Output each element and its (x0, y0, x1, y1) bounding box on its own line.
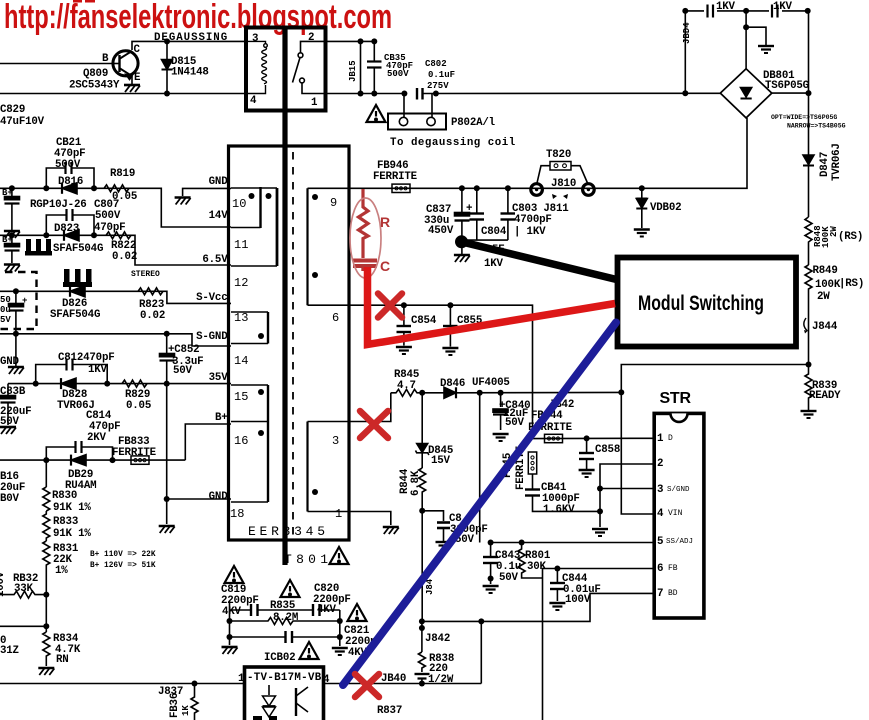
capacitor 1KV (left) (704, 1, 736, 18)
capacitor C840 (493, 393, 530, 430)
svg-text:0u: 0u (0, 305, 11, 315)
ground (38, 668, 54, 675)
svg-text:8.2M: 8.2M (273, 612, 298, 624)
ground (396, 347, 412, 354)
diode VDB02 (636, 185, 681, 228)
jumper J842 (419, 621, 450, 652)
node junction (477, 390, 483, 396)
resistor R835 (230, 600, 340, 625)
node bridge top feed (743, 8, 749, 14)
capacitor C855 (443, 305, 482, 346)
resistor R839 (805, 365, 841, 411)
svg-text:1KV: 1KV (716, 1, 736, 13)
svg-text:11: 11 (234, 238, 248, 252)
jumper JB04 (682, 11, 692, 96)
node junction (164, 496, 170, 502)
svg-text:C802: C802 (425, 59, 447, 69)
svg-text:OPT=WIDE=>TS6P05G: OPT=WIDE=>TS6P05G (771, 114, 837, 121)
node junction (312, 272, 318, 278)
svg-text:R: R (380, 214, 390, 230)
resistor R829 (122, 380, 151, 412)
svg-text:http://fanselektronic.blogspot: http://fanselektronic.blogspot.com (4, 0, 392, 36)
node junction (401, 302, 407, 308)
node junction (9, 185, 15, 191)
svg-text:500V: 500V (95, 210, 121, 222)
node junction (682, 90, 688, 96)
node junction (554, 566, 560, 572)
terminal J810 left (531, 184, 543, 196)
svg-text:1: 1 (657, 433, 664, 445)
svg-text:B0V: B0V (0, 493, 20, 505)
node junction (498, 390, 504, 396)
capacitor C803 (501, 188, 570, 240)
svg-text:50V: 50V (499, 572, 519, 584)
ground (4, 231, 20, 238)
node junction (447, 302, 453, 308)
node C804 (474, 185, 480, 191)
red annotation pointer line (368, 267, 616, 345)
svg-text:1%: 1% (55, 565, 68, 577)
svg-text:S/GND: S/GND (667, 486, 690, 494)
svg-text:470pF: 470pF (94, 222, 125, 234)
wire bottom bus left (0, 683, 245, 685)
node junction (433, 91, 439, 97)
svg-text:SS/ADJ: SS/ADJ (666, 538, 693, 546)
capacitor C814 bypass (46, 410, 120, 460)
node ground stub (743, 24, 749, 30)
ground at Q809 emitter (124, 85, 140, 92)
wire to ground (746, 27, 766, 45)
capacitor CB21 (46, 137, 94, 188)
resistor R845 (391, 369, 422, 396)
svg-text:5V: 5V (0, 315, 11, 325)
svg-text:18: 18 (230, 507, 244, 521)
svg-text:7: 7 (657, 588, 663, 600)
node JB04 top (682, 8, 688, 14)
wire bridge right to rail (772, 92, 809, 94)
red snubber R annotation (359, 189, 369, 258)
svg-text:4: 4 (250, 95, 257, 107)
ground (332, 648, 348, 655)
svg-text:T820: T820 (546, 149, 571, 161)
svg-text:2W: 2W (817, 291, 830, 303)
ground (159, 526, 175, 533)
svg-text:C: C (380, 258, 390, 274)
diode D815 (162, 41, 209, 93)
resistor R834 (43, 632, 81, 666)
ground (0, 427, 16, 434)
wire GND stub + ground (183, 188, 231, 196)
node junction (337, 634, 343, 640)
svg-text:2SC5343Y: 2SC5343Y (69, 80, 120, 92)
ground (549, 603, 565, 610)
capacitor in dashed box (0, 291, 27, 334)
svg-text:1: 1 (335, 507, 342, 521)
svg-text:0.02: 0.02 (140, 310, 165, 322)
red ellipse around RC (350, 198, 381, 278)
svg-text:D: D (668, 434, 673, 443)
svg-text:R833: R833 (53, 516, 78, 528)
capacitor C843 (483, 543, 521, 585)
capacitor top left electrolytic (2, 188, 20, 230)
wire bridge top (745, 11, 747, 69)
svg-text:15V: 15V (431, 455, 451, 467)
node junction (192, 681, 198, 687)
wire row1 (230, 609, 251, 611)
ground (493, 434, 509, 441)
svg-text:R837: R837 (377, 705, 402, 717)
resistor R822 (106, 232, 137, 263)
label C816 (0, 471, 25, 505)
node junction (371, 38, 377, 44)
svg-text:FERRITE: FERRITE (112, 447, 157, 459)
ground (483, 586, 499, 593)
ground top right (758, 46, 774, 53)
svg-text:VIN: VIN (668, 509, 683, 518)
diode D816 (30, 176, 87, 211)
svg-text:1KV: 1KV (773, 1, 793, 13)
warning triangles bottom (225, 566, 244, 583)
ground (436, 542, 452, 549)
blue annotation pointer line (343, 323, 616, 686)
ground C837 (454, 255, 470, 262)
svg-text:J810: J810 (551, 178, 576, 190)
node junction (258, 333, 264, 339)
capacitor C802 (417, 59, 720, 100)
node junction (91, 232, 97, 238)
diode D829 (65, 455, 96, 492)
capacitor D823 bypass 470pF (46, 199, 125, 235)
bridge rectifier DB801 (720, 69, 845, 130)
label partial (0, 635, 19, 657)
resistor divider chain (45, 460, 47, 487)
svg-text:6.8K: 6.8K (410, 470, 422, 496)
wire top 1KV net (685, 10, 807, 12)
svg-text:C812470pF: C812470pF (58, 352, 115, 364)
svg-text:RGP10J-26: RGP10J-26 (30, 199, 87, 211)
wire relay pin2 to JB15 (326, 40, 375, 42)
svg-text:+: + (22, 296, 27, 306)
wire row B+ feed (0, 459, 185, 461)
node junction (597, 486, 603, 492)
svg-text:35V: 35V (209, 372, 229, 384)
transformer T801 core dashed (292, 152, 294, 538)
relay switch (293, 41, 326, 93)
node junction (43, 185, 49, 191)
svg-text:FB36: FB36 (169, 693, 181, 718)
warning symbol (300, 642, 319, 659)
node junction (227, 634, 233, 640)
svg-text:100K: 100K (815, 279, 841, 291)
diode D846 (422, 377, 621, 398)
red X mark 3 (355, 674, 379, 697)
svg-text:C: C (134, 44, 141, 56)
wire pin1 to ground (346, 512, 391, 526)
wire pin3 to ground (599, 489, 601, 528)
resistor R844 (399, 468, 426, 511)
wire relay pin1 right (326, 93, 405, 95)
node junction (419, 390, 425, 396)
relay box (degaussing relay) (246, 28, 326, 111)
wire base of Q809 (0, 63, 113, 65)
capacitor C804 (470, 188, 507, 240)
node junction (419, 618, 425, 624)
svg-text:D846: D846 (440, 378, 465, 390)
svg-text:91K 1%: 91K 1% (53, 502, 91, 514)
wire pin6 row (346, 305, 533, 438)
wire STR pin4 VIN (621, 365, 808, 515)
diode D823 (64, 230, 79, 241)
T801 winding pins3-1 (308, 422, 347, 522)
T801 winding pins15-16 (230, 385, 268, 521)
node rail top (805, 8, 811, 14)
header url text (4, 0, 392, 36)
resistor R831 (43, 541, 79, 595)
svg-text:VDB02: VDB02 (650, 202, 681, 214)
wire left leg (229, 601, 231, 645)
warning symbol (348, 604, 367, 621)
node junction (312, 194, 318, 200)
svg-text:C829: C829 (0, 104, 25, 116)
node junction (419, 681, 425, 687)
ground net GND left (0, 334, 20, 368)
svg-text:6: 6 (332, 311, 339, 325)
capacitor C837 (424, 188, 472, 240)
symbol bold mark 1 (25, 239, 52, 256)
ferrite FB845 vertical (502, 445, 537, 490)
relay coil (246, 41, 267, 93)
capacitor CB35 (367, 41, 413, 93)
svg-text:(RS): (RS) (838, 231, 863, 243)
wire R844 down to BD row (421, 511, 423, 622)
svg-text:1KV: 1KV (484, 258, 504, 270)
svg-text:14: 14 (234, 354, 248, 368)
svg-text:B+ 126V => 51K: B+ 126V => 51K (90, 562, 156, 570)
jumper J844 (804, 316, 838, 365)
svg-text:100V: 100V (565, 594, 591, 606)
svg-text:SFAF504G: SFAF504G (53, 243, 103, 255)
node junction (584, 435, 590, 441)
resistor R819 (104, 168, 137, 203)
wire row D816 (0, 188, 231, 227)
wire GND row to transformer (166, 384, 168, 524)
svg-text:D847: D847 (819, 152, 831, 177)
wire STR pin1 row (533, 437, 656, 439)
node C837 (459, 185, 465, 191)
svg-text:UF4005: UF4005 (472, 377, 510, 389)
node junction (478, 618, 484, 624)
node junction (419, 508, 425, 514)
optocoupler ICB02 (238, 652, 330, 720)
svg-text:R835: R835 (270, 600, 295, 612)
node junction (639, 185, 645, 191)
svg-text:1.6KV: 1.6KV (543, 504, 575, 516)
ground (175, 198, 191, 205)
capacitor C821 (230, 625, 377, 659)
T801 left pin labels (196, 176, 228, 503)
wire tap row (0, 625, 46, 627)
ferrite FB833 (112, 436, 157, 464)
capacitor C841 (525, 474, 600, 516)
svg-text:C858: C858 (595, 444, 620, 456)
node junction (249, 193, 255, 199)
capacitor C854 (397, 305, 437, 345)
ground (442, 348, 458, 355)
wire bottom bus right (324, 683, 482, 685)
svg-text:B+: B+ (2, 188, 13, 198)
svg-text:1KV: 1KV (88, 364, 108, 376)
svg-text:1N4148: 1N4148 (171, 67, 209, 79)
ground (222, 647, 238, 654)
ground (4, 265, 20, 272)
wire right leg (339, 610, 341, 646)
svg-text:READY: READY (809, 390, 841, 402)
terminal J810 right (583, 184, 595, 196)
ground VDB02 (634, 230, 650, 237)
svg-text:3: 3 (252, 33, 258, 45)
jumper JB15 (348, 41, 361, 93)
svg-text:STEREO: STEREO (131, 270, 160, 279)
svg-text:500V: 500V (55, 159, 81, 171)
node junction (371, 91, 377, 97)
capacitor C838 (0, 384, 31, 428)
ferrite FB844 (528, 410, 573, 443)
svg-text:R849: R849 (813, 265, 838, 277)
capacitor C858 (579, 438, 620, 470)
capacitor C820 (313, 583, 351, 616)
svg-text:4KV: 4KV (317, 604, 337, 616)
node junction (358, 91, 364, 97)
svg-text:4.7: 4.7 (397, 380, 416, 392)
svg-text:0.05: 0.05 (126, 400, 151, 412)
svg-text:GND: GND (209, 176, 229, 188)
svg-text:JBD4: JBD4 (682, 22, 692, 44)
svg-text:GND: GND (209, 491, 229, 503)
svg-text:4700pF: 4700pF (514, 214, 552, 226)
resistor R801 (518, 543, 551, 579)
connector P802A/1 (388, 94, 516, 150)
svg-text:4KV: 4KV (222, 606, 242, 618)
svg-text:J842: J842 (425, 633, 450, 645)
node junction (9, 232, 15, 238)
ground (579, 470, 595, 477)
transistor Q809 (69, 44, 141, 92)
svg-text:1: 1 (311, 97, 318, 109)
transformer T801 body (229, 146, 350, 540)
svg-text:30K: 30K (527, 561, 547, 573)
svg-text:9: 9 (330, 196, 337, 210)
svg-text:JB15: JB15 (348, 60, 358, 82)
svg-text:500V: 500V (387, 69, 409, 79)
wire row S-GND (0, 334, 231, 346)
svg-text:BD: BD (668, 589, 678, 598)
svg-text:JB40: JB40 (381, 673, 406, 685)
diode D847 (803, 143, 843, 217)
capacitor C819 (221, 584, 312, 618)
diode D828 (57, 378, 95, 412)
capacitor 14V electrolytic (2, 235, 20, 263)
node C803 (505, 185, 511, 191)
arrows J810 (552, 194, 568, 199)
wire C837 to ground (461, 240, 463, 254)
svg-text:C83B: C83B (0, 386, 26, 398)
ground (383, 527, 399, 534)
svg-text:|RS): |RS) (839, 278, 864, 290)
node junction (91, 185, 97, 191)
svg-text:R830: R830 (52, 490, 77, 502)
svg-text:31Z: 31Z (0, 645, 19, 657)
svg-text:TS6P05G: TS6P05G (765, 80, 809, 92)
node junction (104, 381, 110, 387)
node junction (597, 508, 603, 514)
svg-text:14V: 14V (209, 210, 229, 222)
node junction (806, 90, 812, 96)
wire row 35V (8, 383, 231, 385)
node relay bottom (164, 91, 170, 97)
wire STR pin3 (600, 488, 655, 490)
svg-text:S-Vcc: S-Vcc (196, 292, 227, 304)
resistor R830 (43, 487, 92, 514)
svg-text:NARROW=>TS4B05G: NARROW=>TS4B05G (787, 123, 846, 130)
node junction (258, 430, 264, 436)
node junction (337, 618, 343, 624)
svg-text:SFAF504G: SFAF504G (50, 309, 100, 321)
resistor R848 (805, 217, 863, 265)
svg-text:C804: C804 (481, 226, 507, 238)
svg-text:450V: 450V (428, 225, 454, 237)
svg-text:B+: B+ (215, 412, 228, 424)
svg-text:50: 50 (0, 295, 11, 305)
wire row B+ (185, 424, 231, 460)
warning symbol (281, 580, 300, 597)
note B+ adjust (90, 551, 156, 570)
capacitor C853 (422, 511, 487, 546)
warning triangle T801 (330, 547, 349, 564)
right rail (808, 11, 810, 155)
capacitor C829 label (0, 104, 45, 128)
ground rail bottom (801, 411, 817, 418)
node junction (33, 381, 39, 387)
node relay top (164, 38, 170, 44)
node junction (110, 457, 116, 463)
svg-text:STR: STR (660, 390, 692, 407)
wire BD drop to bottom (480, 621, 482, 683)
node junction (519, 540, 525, 546)
resistor R832 (0, 571, 46, 598)
node junction (312, 489, 318, 495)
node junction (43, 592, 49, 598)
T801 winding pins10-11 (231, 187, 277, 290)
wire pin3 row (346, 393, 391, 422)
node junction (618, 389, 624, 395)
symbol bold mark 2 (63, 269, 92, 287)
svg-text:100V: 100V (0, 571, 7, 597)
resistor R823 (138, 288, 165, 322)
ground (592, 529, 608, 536)
capacitor C812 bypass (36, 352, 115, 384)
svg-text:RN: RN (56, 654, 69, 666)
svg-text:50V: 50V (173, 365, 193, 377)
svg-text:C854: C854 (411, 315, 437, 327)
wire AC bottom net (0, 93, 246, 95)
svg-text:50V: 50V (505, 417, 525, 429)
svg-text:B: B (102, 53, 109, 65)
svg-text:47uF10V: 47uF10V (0, 116, 45, 128)
svg-text:10: 10 (232, 197, 246, 211)
node junction (358, 38, 364, 44)
zener D845 (416, 393, 454, 468)
svg-text:J844: J844 (812, 321, 838, 333)
